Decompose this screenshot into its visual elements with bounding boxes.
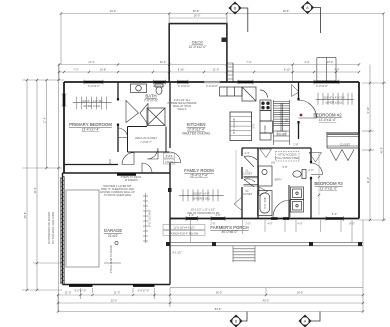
svg-text:16'-4"x17'-4": 16'-4"x17'-4" (190, 174, 208, 178)
svg-text:LINEN: LINEN (165, 160, 173, 164)
svg-text:5'x6'8: 5'x6'8 (166, 154, 173, 158)
left wall (63, 82, 65, 173)
kitchen counters (220, 87, 257, 101)
svg-text:4'-0": 4'-0" (297, 222, 302, 226)
island inner lines (230, 117, 252, 136)
steps to deck bar at garage top (117, 173, 136, 176)
svg-text:8'-0" CLG HGT: 8'-0" CLG HGT (148, 209, 152, 227)
dimension lines right (359, 14, 387, 312)
house outer walls (64, 82, 359, 219)
svg-text:DECK: DECK (192, 40, 203, 45)
svg-text:PRIMARY BEDROOM: PRIMARY BEDROOM (69, 122, 112, 127)
bottom wall (170, 218, 359, 220)
svg-text:11'-0": 11'-0" (65, 291, 71, 295)
deck stairs (227, 63, 233, 82)
svg-text:10'-8": 10'-8" (100, 68, 107, 72)
dimension lines bottom (58, 288, 363, 312)
walk-in closet (128, 127, 170, 153)
svg-text:2'-8": 2'-8" (293, 143, 298, 147)
svg-text:PITCH SLAB TO DOOR: PITCH SLAB TO DOOR (109, 245, 113, 273)
section marker A top (301, 1, 321, 33)
svg-text:31'-4": 31'-4" (33, 187, 37, 194)
svg-text:5'-0"x4'-0": 5'-0"x4'-0" (88, 84, 100, 88)
door jamb stubs (117, 98, 312, 179)
svg-text:7'-2": 7'-2" (73, 68, 78, 72)
svg-text:2'-6": 2'-6" (210, 222, 215, 226)
deck side walls extension to dim line (169, 14, 227, 24)
garage (66, 190, 99, 267)
stove (260, 90, 273, 140)
svg-text:24'-0": 24'-0" (297, 291, 304, 295)
svg-text:10'-1 1/2" x 12'-1 1/2": 10'-1 1/2" x 12'-1 1/2" (191, 208, 216, 212)
windows on top wall (84, 81, 339, 84)
svg-text:2'-0"x3'-0": 2'-0"x3'-0" (153, 84, 165, 88)
deck door opening in top wall (204, 81, 220, 83)
svg-text:16'HDR & SILL: 16'HDR & SILL (325, 101, 343, 105)
porch floor lines (170, 242, 363, 246)
svg-text:NO WINDOWS OR DOORS: NO WINDOWS OR DOORS (47, 211, 51, 244)
deck (169, 24, 227, 82)
svg-text:6'-0"x6'-8": 6'-0"x6'-8" (206, 84, 218, 88)
svg-text:5'-0"x4'-0": 5'-0"x4'-0" (178, 84, 190, 88)
svg-text:5'-0": 5'-0" (245, 175, 250, 179)
svg-text:5'-0"x4'-0": 5'-0"x4'-0" (316, 84, 328, 88)
svg-text:11'-8 1/2"x4'-9 1/2": 11'-8 1/2"x4'-9 1/2" (173, 225, 195, 229)
svg-text:9'-0"x7'-0": 9'-0"x7'-0" (75, 289, 87, 293)
windows on bottom wall (186, 217, 344, 220)
mud hall doors (122, 148, 158, 165)
svg-text:22'-0": 22'-0" (111, 299, 118, 303)
svg-text:12'-0"x11'-0": 12'-0"x11'-0" (320, 187, 338, 191)
porch railing ticks (191, 220, 353, 242)
svg-text:7'-4": 7'-4" (246, 60, 251, 64)
svg-text:84'-8": 84'-8" (215, 307, 222, 311)
svg-text:4'-4": 4'-4" (244, 151, 249, 155)
svg-text:11'-0": 11'-0" (114, 291, 120, 295)
svg-text:CLOSET: CLOSET (242, 192, 253, 196)
svg-text:44'-0": 44'-0" (110, 9, 117, 13)
svg-text:GARAGE: GARAGE (104, 228, 123, 233)
interior wall kitchen/garage column (64, 82, 359, 285)
svg-text:45'-8": 45'-8" (380, 147, 384, 154)
svg-text:4'-1 1/2": 4'-1 1/2" (172, 251, 182, 255)
svg-text:VAULTED CEILING: VAULTED CEILING (182, 132, 210, 136)
svg-text:DN:13R: DN:13R (277, 132, 286, 136)
red dot (300, 114, 303, 117)
hall door wedges (234, 149, 322, 211)
svg-text:BEDROOM #2: BEDROOM #2 (313, 113, 342, 118)
svg-text:9'-0"x7'-0": 9'-0"x7'-0" (138, 289, 150, 293)
svg-text:TO ROOF SHEATHING: TO ROOF SHEATHING (104, 193, 131, 197)
linen boxed labels on wall (164, 153, 175, 164)
section marker A bottom (299, 312, 321, 327)
svg-text:USE OF TRANSOMS IN FR: USE OF TRANSOMS IN FR (187, 211, 220, 215)
porch steps (233, 246, 255, 262)
door wedges near stairs top (292, 85, 300, 97)
svg-text:MUD: MUD (108, 159, 112, 165)
section marker B bottom (230, 312, 248, 327)
svg-text:45'-8": 45'-8" (23, 212, 27, 219)
closet arc bath block (118, 128, 128, 138)
svg-text:5'-0": 5'-0" (332, 212, 337, 216)
bath1 door (126, 101, 148, 125)
svg-text:17'-4": 17'-4" (88, 60, 95, 64)
svg-text:B: B (235, 319, 238, 324)
svg-text:4'-4": 4'-4" (304, 60, 309, 64)
svg-text:FAMILY ROOM: FAMILY ROOM (184, 168, 214, 173)
svg-text:(2)1'-6" x 4'-0" DH: (2)1'-6" x 4'-0" DH (82, 99, 103, 103)
deck bench mark on right wall (222, 38, 228, 43)
svg-text:PORCH FLR 4" BELOW: PORCH FLR 4" BELOW (170, 231, 199, 235)
svg-text:UP: UP (285, 118, 289, 122)
porch post left (166, 242, 170, 246)
closet doors chevrons (330, 150, 354, 161)
deck dim line (169, 15, 227, 23)
svg-text:WALK-IN CLOSET: WALK-IN CLOSET (135, 136, 157, 140)
garage left wall hatch (61, 176, 65, 284)
svg-text:(2)2'-8" x 6'-8": (2)2'-8" x 6'-8" (193, 191, 209, 195)
garage walls (63, 173, 171, 285)
section marker B top (229, 2, 248, 33)
svg-text:4'-0": 4'-0" (267, 222, 272, 226)
svg-text:PULL DOWN STAIR: PULL DOWN STAIR (276, 156, 300, 160)
svg-text:16'HDR & SILL: 16'HDR & SILL (83, 104, 101, 108)
bedroom2 door arc (299, 100, 317, 118)
svg-text:11'-0": 11'-0" (366, 177, 370, 183)
chimney (317, 57, 336, 81)
svg-text:40'-0": 40'-0" (263, 299, 270, 303)
dimension lines top (59, 14, 384, 83)
bath 1 (131, 84, 164, 94)
porch posts (212, 242, 362, 246)
svg-text:(2)2'-8" x 4'-0" DH: (2)2'-8" x 4'-0" DH (324, 96, 345, 100)
svg-text:8'-10": 8'-10" (178, 68, 185, 72)
svg-text:5'-0" TUB: 5'-0" TUB (263, 197, 267, 208)
svg-text:2'-6": 2'-6" (259, 147, 264, 151)
bedroom2 closet (327, 135, 359, 149)
attic access note (276, 152, 300, 162)
svg-text:40'-0"x8'-0": 40'-0"x8'-0" (221, 230, 237, 234)
svg-text:ON THIS WALL PER CODE: ON THIS WALL PER CODE (51, 212, 55, 245)
svg-text:7'-6": 7'-6" (334, 68, 339, 72)
svg-text:B: B (234, 6, 237, 11)
hall closets (244, 156, 258, 187)
garage vertical ladder (143, 193, 148, 243)
window on left wall (63, 94, 66, 106)
primary bedroom closet ladder (73, 97, 112, 110)
svg-text:A: A (304, 319, 307, 324)
window end ticks (62, 80, 344, 221)
front door swing (273, 200, 290, 217)
svg-text:6'-8": 6'-8" (282, 165, 287, 169)
svg-text:13'-0": 13'-0" (327, 60, 334, 64)
bedroom2 ladder (316, 93, 354, 105)
svg-text:CLOSET: CLOSET (242, 172, 253, 176)
svg-text:CLOSET: CLOSET (340, 143, 351, 147)
svg-text:BATH: BATH (275, 178, 282, 182)
svg-text:13'-4"x17'-4": 13'-4"x17'-4" (82, 128, 100, 132)
svg-text:21'x22': 21'x22' (108, 234, 118, 238)
mud-family door arc (170, 152, 181, 163)
svg-text:42"REF: 42"REF (263, 125, 267, 134)
svg-text:11'-0": 11'-0" (213, 68, 219, 72)
svg-text:7'-0"x7'-0": 7'-0"x7'-0" (144, 99, 158, 103)
garage door bars (69, 284, 155, 287)
dim line inside bedroom3 (318, 152, 320, 215)
svg-text:36'-8": 36'-8" (193, 9, 200, 13)
svg-text:2'-0": 2'-0" (245, 222, 250, 226)
svg-text:A: A (306, 5, 309, 10)
svg-text:3'-0": 3'-0" (252, 123, 256, 128)
svg-text:WALLS: WALLS (178, 107, 187, 111)
svg-text:9'-10": 9'-10" (284, 68, 291, 72)
svg-text:BEDROOM #3: BEDROOM #3 (314, 181, 343, 186)
svg-text:16'-0": 16'-0" (216, 291, 223, 295)
svg-text:16'HDR & SILL: 16'HDR & SILL (193, 196, 211, 200)
svg-text:9'-10": 9'-10" (366, 107, 370, 114)
stairs (274, 100, 290, 145)
garage-mud door arc (142, 163, 152, 173)
svg-text:2'-6": 2'-6" (308, 168, 313, 172)
svg-text:46'-8": 46'-8" (283, 9, 290, 13)
svg-text:16 RISERS: 16 RISERS (124, 178, 138, 182)
svg-text:12'-0"x12'-0": 12'-0"x12'-0" (189, 45, 207, 49)
bath2 door wedge (259, 187, 268, 196)
svg-text:41'-4": 41'-4" (160, 60, 167, 64)
bath 2 (258, 166, 307, 216)
porch dim boxed text (163, 225, 205, 236)
shower (147, 108, 165, 126)
family room ladder (179, 189, 224, 201)
svg-text:16'-0": 16'-0" (194, 13, 201, 17)
dimension lines left (22, 65, 64, 312)
right wall (358, 82, 360, 219)
top wall (64, 81, 359, 83)
svg-text:7'-0"x6'-7": 7'-0"x6'-7" (140, 140, 152, 144)
svg-text:13'-0"x11'-0": 13'-0"x11'-0" (319, 118, 337, 122)
svg-text:17'-4": 17'-4" (43, 117, 47, 124)
svg-text:LIN: LIN (271, 161, 275, 165)
bedroom3 door arc (311, 163, 323, 175)
svg-text:ATTIC ACCESS: ATTIC ACCESS (278, 153, 297, 157)
island (230, 112, 252, 141)
dim line family room right (235, 150, 237, 205)
svg-text:KITCHEN: KITCHEN (187, 122, 206, 127)
